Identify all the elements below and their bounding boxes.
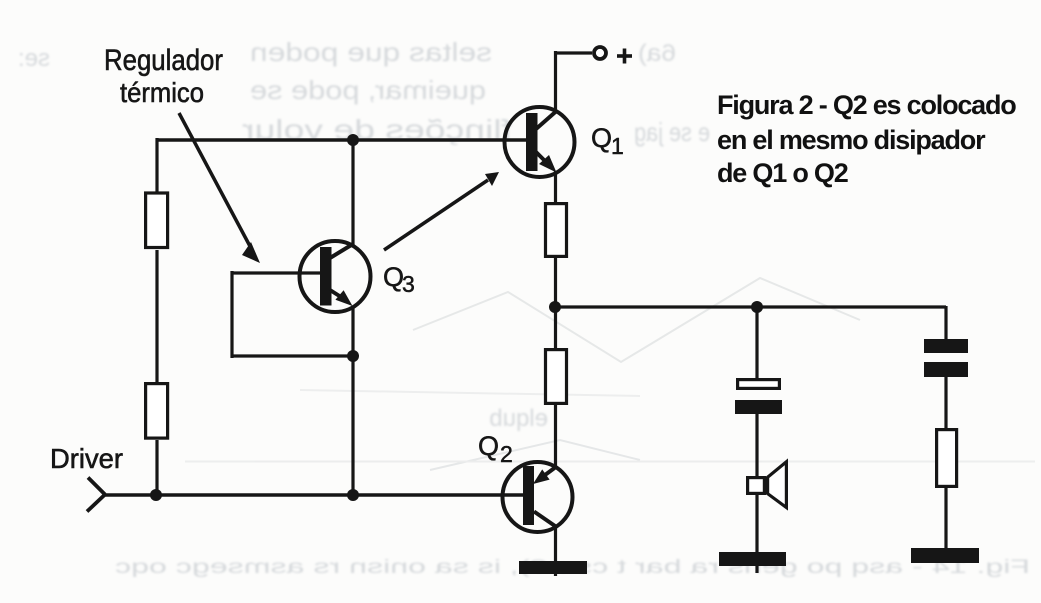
node: bottom rail / Q3 emitter	[347, 489, 359, 501]
svg-text:se:: se:	[18, 45, 50, 72]
label: Regulador térmico	[104, 44, 223, 108]
svg-text:2: 2	[500, 441, 513, 467]
speaker LS1	[748, 462, 787, 508]
node: speaker branch junction	[751, 301, 763, 313]
resistor R4 (between output node and Q2 emitter)	[546, 350, 567, 404]
wire: Q1 collector to + terminal	[554, 51, 592, 111]
svg-text:Regulador: Regulador	[104, 44, 223, 77]
svg-text:1: 1	[611, 133, 624, 159]
label Q2	[478, 431, 513, 467]
wire: bottom rail (driver to Q2 base)	[105, 493, 528, 496]
svg-text:e se jag: e se jag	[634, 117, 710, 147]
input chevron (driver)	[87, 478, 105, 512]
wire: R5 to ground	[944, 488, 947, 560]
svg-text:elqub: elqub	[489, 405, 548, 432]
wire: R4 down to Q2 emitter	[554, 405, 557, 467]
ground (under Q2)	[519, 561, 587, 574]
wire: C1 to speaker	[755, 414, 758, 478]
wire: left column upper segment	[155, 138, 158, 193]
resistor R1 (left upper)	[146, 193, 168, 248]
wire: left column bottom segment	[155, 440, 158, 495]
wire: Q2 collector down to ground	[554, 526, 557, 576]
wire: output node down to R4	[554, 307, 557, 349]
label Driver	[50, 443, 123, 474]
svg-text:seltas que poden: seltas que poden	[250, 37, 492, 67]
annotation arrow to Q3 (from Regulador térmico)	[179, 113, 260, 263]
node: junction top rail / Q3 collector	[347, 134, 359, 146]
wire: top rail / Q1 base line	[157, 138, 527, 141]
ground (under speaker)	[719, 552, 786, 566]
transistor Q3 (NPN, thermal regulator)	[300, 241, 371, 312]
node: bottom rail / left column	[150, 489, 162, 501]
node: output junction	[549, 301, 561, 313]
capacitor C1 (electrolytic, speaker coupling)	[735, 380, 782, 414]
faint crease zigzag	[185, 278, 1035, 470]
transistor Q1 (NPN, upper output)	[505, 107, 575, 177]
wire: Q3 emitter down to bottom rail	[351, 306, 354, 495]
resistor R5 (Zobel)	[937, 430, 957, 487]
svg-text:Q: Q	[591, 123, 612, 153]
wire: output horizontal rail	[555, 305, 946, 308]
svg-text:en el mesmo disipador: en el mesmo disipador	[717, 125, 986, 155]
wire: left column middle segment	[155, 250, 158, 383]
svg-text:Driver: Driver	[50, 443, 123, 474]
svg-text:de Q1 o Q2: de Q1 o Q2	[717, 158, 848, 188]
label Q1	[591, 123, 624, 159]
svg-text:6a): 6a)	[638, 40, 676, 67]
wire: Q1 emitter down	[554, 171, 557, 203]
svg-text:queimar, pode se: queimar, pode se	[250, 75, 486, 105]
terminal: + supply	[594, 47, 632, 64]
label Q3	[383, 262, 415, 297]
wire: R3 to output node	[554, 258, 557, 308]
wire: C2 to R5	[944, 377, 947, 429]
caption: Figura 2	[717, 90, 1016, 188]
svg-text:térmico: térmico	[120, 77, 204, 108]
svg-text:Figura 2 - Q2 es colocado: Figura 2 - Q2 es colocado	[717, 90, 1016, 120]
wire: Q3 base loop (left, down, right)	[232, 271, 353, 358]
svg-text:Q: Q	[478, 431, 499, 461]
wire: right branch corner down	[944, 306, 947, 341]
wire: speaker branch down to C1	[755, 307, 758, 380]
transistor Q2 (PNP, lower output)	[503, 462, 573, 532]
resistor R3 (between Q1 emitter and output node)	[546, 204, 567, 257]
wire: Q3 collector up to rail	[351, 140, 354, 246]
node: Q3 base-emitter tie	[347, 350, 359, 362]
svg-text:Q: Q	[383, 262, 404, 292]
capacitor C2 (Zobel)	[924, 339, 968, 377]
wire: speaker to ground	[755, 495, 758, 573]
ground (right branch)	[911, 548, 979, 563]
resistor R2 (left lower)	[146, 384, 168, 439]
svg-text:3: 3	[402, 271, 415, 297]
annotation arrow to Q1	[384, 172, 499, 250]
